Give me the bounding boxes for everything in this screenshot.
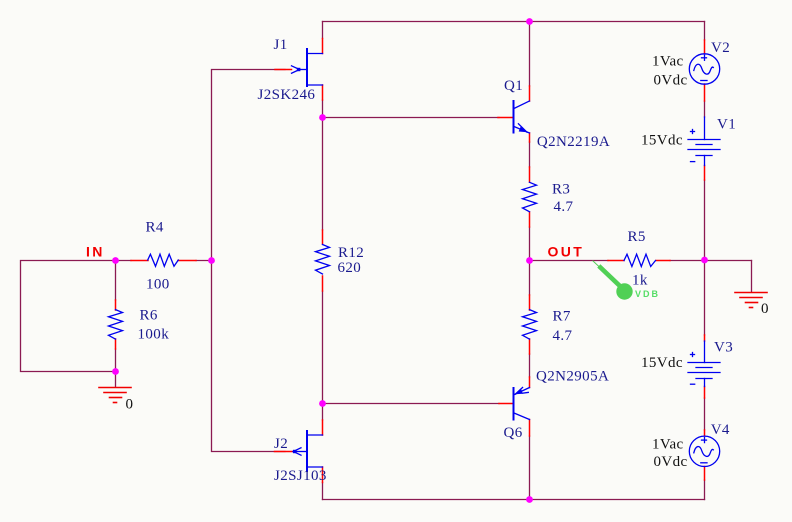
svg-text:1Vac: 1Vac <box>652 54 684 70</box>
svg-text:4.7: 4.7 <box>554 199 574 215</box>
resistor R4 <box>131 220 196 293</box>
svg-text:620: 620 <box>338 260 362 276</box>
svg-text:OUT: OUT <box>548 244 585 260</box>
wire source rail x=322 <box>322 100 324 420</box>
svg-text:0: 0 <box>126 397 134 413</box>
ground right <box>735 293 769 318</box>
svg-text:R5: R5 <box>628 229 646 245</box>
svg-text:R4: R4 <box>146 220 164 236</box>
wire R6 branch <box>115 261 117 388</box>
svg-text:J2SK246: J2SK246 <box>258 87 316 103</box>
svg-text:R12: R12 <box>338 245 364 261</box>
svg-text:1Vac: 1Vac <box>652 437 684 453</box>
resistor R5 <box>608 229 670 289</box>
svg-text:R6: R6 <box>140 308 158 324</box>
transistor Q6 <box>499 369 609 442</box>
transistor Q1 <box>498 78 610 150</box>
svg-text:J2SJ103: J2SJ103 <box>274 468 327 484</box>
node IN junction <box>112 257 119 264</box>
svg-text:Q2N2905A: Q2N2905A <box>536 369 609 385</box>
svg-text:V1: V1 <box>717 117 736 133</box>
svg-text:0: 0 <box>761 301 769 317</box>
wire Q1 base <box>323 117 500 119</box>
wire Q6 collector drop <box>529 436 531 500</box>
svg-text:1k: 1k <box>632 273 648 289</box>
svg-text:J1: J1 <box>274 37 288 53</box>
source V3 <box>641 335 733 398</box>
wire R7 to Q6 emitter <box>529 354 531 377</box>
svg-text:4.7: 4.7 <box>553 328 573 344</box>
svg-text:V3: V3 <box>714 340 733 356</box>
resistor R7 <box>523 295 573 354</box>
wire top rail <box>323 22 705 41</box>
node R6 bottom junction <box>112 368 119 375</box>
wire R3 to OUT <box>529 227 531 261</box>
node OUT junction <box>526 257 533 264</box>
svg-text:15Vdc: 15Vdc <box>641 133 683 149</box>
svg-text:100: 100 <box>146 277 170 293</box>
wire gate rail <box>212 70 286 452</box>
node R4 right junction <box>208 257 215 264</box>
wire Q1 collector drop <box>529 22 531 87</box>
wire OUT to R7 <box>529 261 531 296</box>
svg-text:15Vdc: 15Vdc <box>641 355 683 371</box>
wire Q1 emitter to R3 <box>529 142 531 167</box>
transistor J1 <box>258 37 323 103</box>
resistor R12 <box>316 230 365 291</box>
node bottom junction <box>526 496 533 503</box>
node J1 source junction <box>319 114 326 121</box>
svg-text:R7: R7 <box>553 309 571 325</box>
wire OUT row <box>530 261 752 293</box>
wire left input loop <box>21 261 212 372</box>
svg-text:V2: V2 <box>711 40 730 56</box>
transistor J2 <box>274 420 327 484</box>
source V1 <box>641 117 736 181</box>
svg-text:Q6: Q6 <box>504 425 523 441</box>
source V4 <box>652 422 730 480</box>
svg-text:R3: R3 <box>552 182 570 198</box>
wire Q6 base <box>323 403 500 405</box>
svg-text:0Vdc: 0Vdc <box>654 73 688 89</box>
ground left <box>99 388 133 413</box>
svg-text:100k: 100k <box>138 327 170 343</box>
probe marker VDB <box>593 261 660 300</box>
node R5 right junction <box>701 257 708 264</box>
node J2 source junction <box>319 400 326 407</box>
svg-text:0Vdc: 0Vdc <box>654 454 688 470</box>
svg-text:J2: J2 <box>274 436 288 452</box>
svg-text:IN: IN <box>86 244 105 260</box>
wire right rail V1 to OUT <box>704 101 706 430</box>
svg-text:Q1: Q1 <box>504 78 523 94</box>
wire bottom rail <box>323 480 705 500</box>
svg-text:Q2N2219A: Q2N2219A <box>537 134 610 150</box>
svg-text:V4: V4 <box>711 422 730 438</box>
source V2 <box>652 40 730 101</box>
resistor R3 <box>523 167 574 227</box>
node top junction <box>526 18 533 25</box>
svg-text:VDB: VDB <box>635 289 660 299</box>
resistor R6 <box>109 300 170 349</box>
